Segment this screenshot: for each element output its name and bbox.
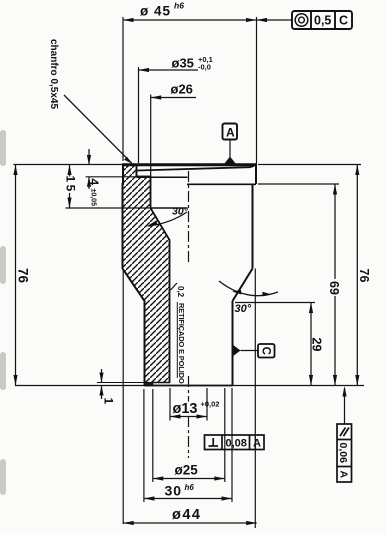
label ø25: [173, 463, 200, 476]
bottom face: [145, 385, 233, 387]
arrow ø45 left: [123, 18, 134, 22]
top face: [122, 163, 257, 166]
svg-text:30°: 30°: [235, 303, 252, 315]
chamfer note leader: [64, 95, 132, 164]
right extension: taper end: [235, 302, 315, 304]
svg-text:ø44: ø44: [172, 507, 202, 523]
dimension 29: [310, 303, 312, 386]
svg-text:h6: h6: [185, 483, 195, 492]
centerline: [188, 171, 190, 263]
svg-text:0,2: 0,2: [176, 286, 185, 298]
dimension ø45h6 line: [123, 19, 292, 21]
dimension 15: [69, 165, 71, 209]
outer taper right: [233, 269, 253, 302]
datum A symbol: [223, 124, 238, 140]
svg-text:0,06: 0,06: [337, 443, 349, 464]
bore wall edges reinforce: [137, 165, 170, 383]
right extension: flange underside: [258, 183, 339, 185]
svg-text:±0,05: ±0,05: [90, 189, 97, 207]
dimension 30h6: [144, 498, 232, 500]
svg-text:0,08: 0,08: [226, 438, 247, 450]
label 15: [65, 177, 78, 194]
bottom 1mm step edge: [97, 382, 170, 384]
dimension ø25: [153, 478, 225, 480]
svg-text:RETIFIÇADO E POLIDO: RETIFIÇADO E POLIDO: [177, 303, 186, 384]
left outer edge reinforce: [123, 165, 145, 386]
arrow FCF leader: [257, 18, 268, 22]
svg-text:29: 29: [310, 338, 324, 352]
feature control frame concentricity 0,5 C: [292, 11, 352, 29]
chamfer edge line: [138, 164, 256, 171]
surface finish note 0,2 RETIFIÇADO E POLIDO: [171, 283, 178, 290]
angle 30° outer taper: [219, 281, 278, 296]
svg-text:76: 76: [16, 268, 31, 284]
svg-text:1: 1: [102, 398, 116, 405]
svg-text:chanfro 0,5x45: chanfro 0,5x45: [48, 39, 59, 109]
scan smudges left edge: [0, 130, 6, 495]
label ø13: [171, 402, 201, 415]
svg-text:ø 45: ø 45: [140, 4, 171, 19]
svg-text:ø13: ø13: [173, 401, 198, 417]
ø45 left extension: [122, 17, 124, 161]
dimension 1 (bottom step): [101, 369, 103, 383]
svg-text:ø35: ø35: [172, 56, 194, 71]
flange underside: [187, 183, 256, 185]
rim solid corner at bottom of section: [145, 382, 153, 386]
counterbore bottom edge to centerline: [137, 176, 188, 178]
svg-text:A: A: [253, 438, 261, 450]
svg-text:-0,0: -0,0: [198, 63, 211, 72]
dimension ø26: [151, 97, 196, 99]
dimension ø13 +0,02: [170, 416, 207, 418]
flange right edge: [255, 164, 257, 185]
dimension ø35 +0,1/-0,0: [139, 69, 199, 71]
ø26 bottom edge to centerline: [151, 207, 188, 209]
svg-text:4: 4: [87, 179, 101, 186]
label ø44: [171, 507, 204, 521]
bottom extension line long: [15, 385, 364, 387]
svg-text:69: 69: [327, 281, 341, 295]
perpendicularity FCF: [205, 435, 265, 450]
label 30: [163, 484, 184, 497]
svg-text:C: C: [259, 347, 271, 355]
svg-text:C: C: [339, 14, 348, 28]
svg-text:h6: h6: [174, 1, 184, 11]
svg-text:0,5: 0,5: [314, 14, 331, 28]
svg-text:+0,02: +0,02: [201, 400, 220, 409]
dimension ø44: [123, 522, 257, 524]
body right edge: [252, 184, 254, 269]
datum C symbol: [233, 345, 241, 357]
svg-text:30: 30: [165, 483, 183, 499]
part cross-section (left sectioned half): [123, 165, 170, 386]
ø44 right extension through FCF: [254, 435, 256, 450]
right extension: top face: [258, 164, 361, 166]
svg-text:76: 76: [357, 269, 371, 283]
label 69: [327, 279, 341, 296]
ø45 right extension: [256, 17, 258, 164]
boss right edge: [232, 301, 234, 386]
dimension 4 ±0,05: [88, 149, 90, 165]
dimension 76 left: [15, 165, 17, 386]
svg-text:30°: 30°: [172, 206, 189, 218]
svg-text:15: 15: [64, 176, 78, 194]
angle 30° bore taper: [148, 212, 187, 226]
svg-text:ø25: ø25: [175, 463, 199, 478]
dimension 69: [334, 184, 336, 386]
left extension: counterbore depth 4: [86, 176, 137, 178]
left extension: depth 15: [66, 207, 151, 209]
dimension 76 right: [356, 165, 358, 386]
left extension: top face: [13, 164, 122, 166]
svg-text:A: A: [337, 471, 349, 479]
parallelism FCF rotated: [344, 388, 346, 424]
svg-text:ø26: ø26: [171, 82, 193, 97]
arrow ø45 right: [246, 18, 257, 22]
svg-text:A: A: [226, 126, 235, 140]
